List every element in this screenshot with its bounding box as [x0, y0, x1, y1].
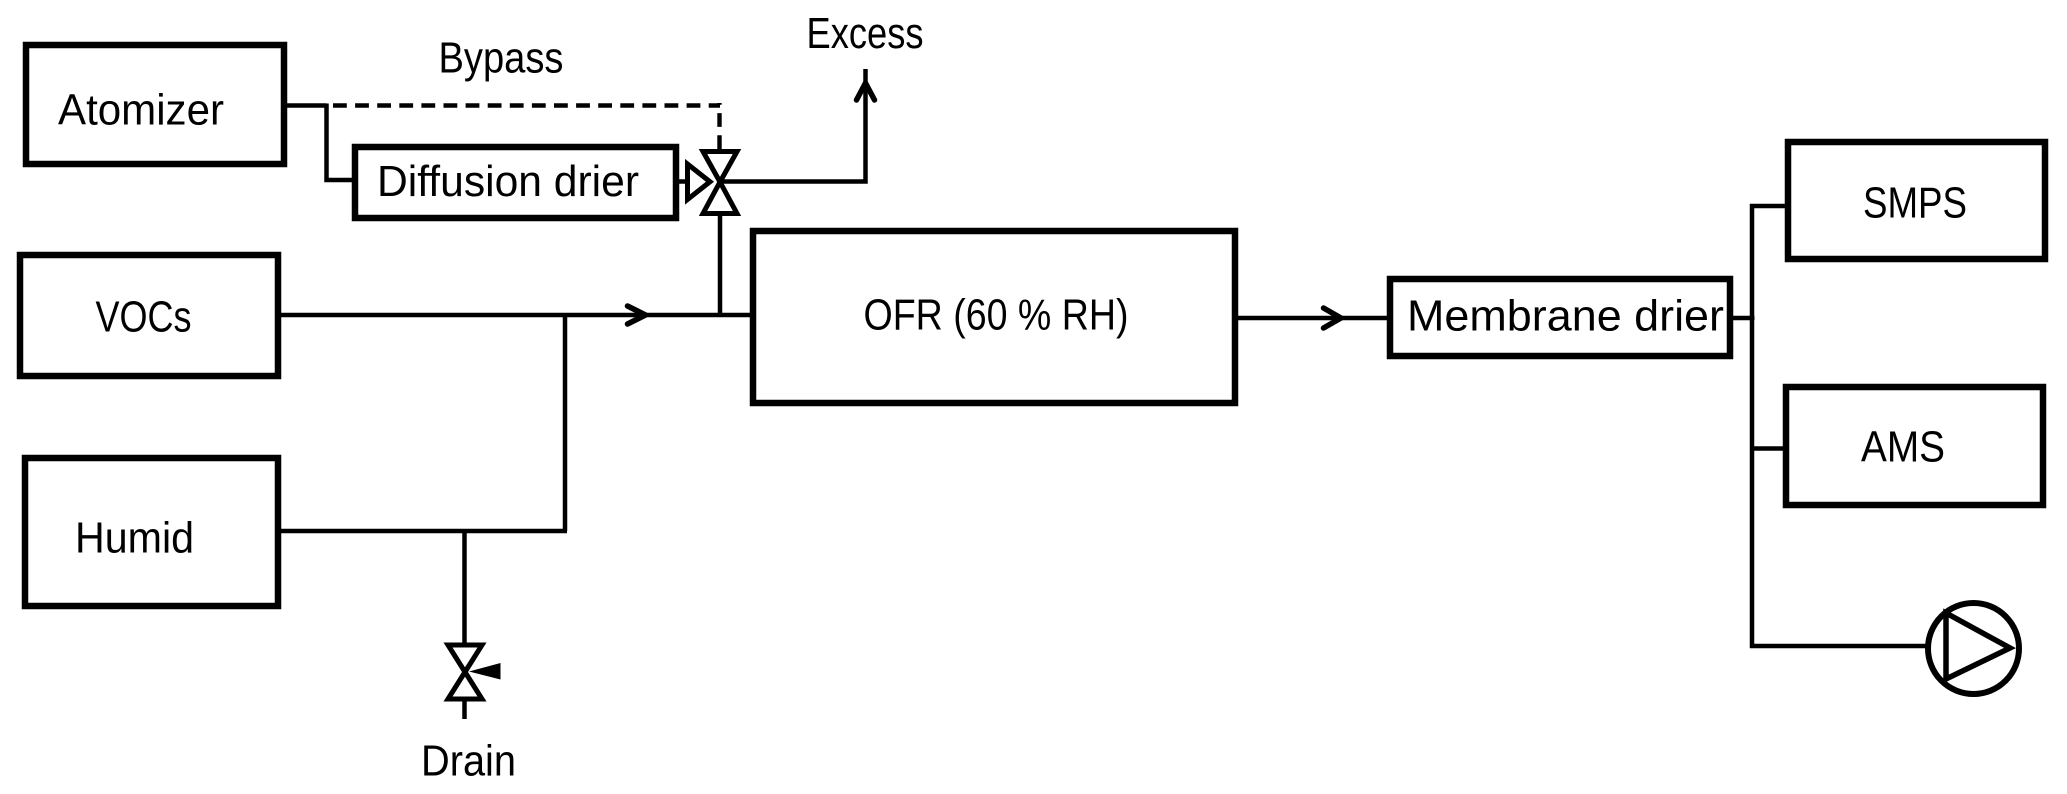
svg-text:Humid: Humid [75, 514, 194, 563]
svg-text:AMS: AMS [1861, 423, 1945, 472]
svg-text:VOCs: VOCs [96, 293, 192, 342]
svg-text:SMPS: SMPS [1863, 179, 1967, 228]
svg-text:Membrane drier: Membrane drier [1407, 292, 1724, 341]
svg-text:OFR (60 % RH): OFR (60 % RH) [864, 291, 1129, 340]
svg-text:Bypass: Bypass [439, 33, 564, 82]
svg-text:Diffusion drier: Diffusion drier [377, 157, 639, 206]
svg-text:Excess: Excess [807, 9, 924, 58]
svg-text:Drain: Drain [421, 737, 516, 786]
svg-text:Atomizer: Atomizer [58, 86, 224, 135]
